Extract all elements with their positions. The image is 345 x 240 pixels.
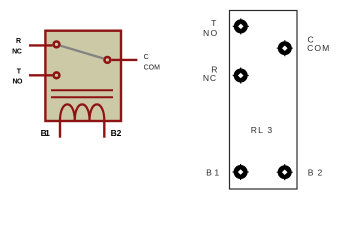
svg-text:COM: COM [144, 64, 161, 71]
svg-text:T: T [17, 69, 22, 76]
label R (schematic) [16, 38, 21, 45]
contact terminal NC circle [54, 42, 60, 48]
label NO (footprint) [203, 28, 218, 38]
pad T/NO [233, 18, 249, 34]
svg-text:B1: B1 [41, 128, 50, 138]
contact terminal NO circle [54, 72, 60, 78]
pin NC wire [29, 44, 52, 46]
svg-text:B2: B2 [111, 128, 122, 138]
label T (schematic) [17, 69, 22, 76]
label NC (footprint) [203, 73, 216, 83]
svg-text:COM: COM [307, 43, 329, 53]
label RL 3 (footprint reference) [251, 125, 273, 135]
pin COM wire [112, 59, 138, 61]
label R (footprint) [211, 64, 217, 74]
label B1 (schematic pin number) [41, 128, 50, 138]
coil lead B1 wire [59, 121, 61, 138]
label T (footprint) [211, 18, 217, 28]
svg-text:NO: NO [203, 28, 218, 38]
label B 2 (footprint) [308, 167, 323, 177]
pad B1 [233, 164, 249, 180]
label NC (schematic) [12, 49, 22, 56]
svg-text:NC: NC [12, 49, 22, 56]
pad R/NC [233, 68, 249, 84]
svg-text:C: C [144, 54, 149, 61]
label B2 (schematic pin number) [111, 128, 122, 138]
label NO (schematic) [13, 79, 24, 86]
svg-text:B 1: B 1 [206, 167, 219, 177]
label C (schematic) [144, 54, 149, 61]
svg-text:RL 3: RL 3 [251, 125, 273, 135]
common terminal COM circle [105, 57, 111, 63]
pad B2 [277, 164, 293, 180]
coil L1 (inductor arcs) [60, 104, 104, 120]
switch armature (gray pole) [60, 46, 103, 59]
svg-text:B 2: B 2 [308, 167, 323, 177]
pin NO wire [29, 74, 52, 76]
relay RL3 schematic body [45, 31, 121, 121]
svg-text:R: R [16, 38, 21, 45]
label COM (schematic) [144, 64, 161, 71]
svg-text:NC: NC [203, 73, 216, 83]
label C (footprint) [308, 34, 314, 44]
svg-text:T: T [211, 18, 217, 28]
label B 1 (footprint) [206, 167, 219, 177]
svg-text:NO: NO [13, 79, 24, 86]
label COM (footprint) [307, 43, 329, 53]
coil core line 2 [51, 96, 113, 98]
pad C/COM [277, 40, 293, 56]
footprint RL3 outline [230, 11, 298, 190]
coil lead B2 wire [103, 121, 105, 138]
coil core line 1 [51, 89, 113, 91]
